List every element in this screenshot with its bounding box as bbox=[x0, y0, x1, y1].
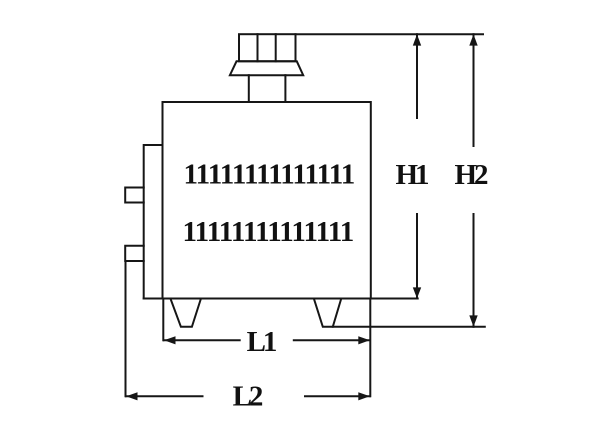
H2 bottom arrowhead bbox=[469, 315, 477, 326]
dimension L2 line left segment bbox=[126, 395, 203, 397]
dimension L2 line right segment bbox=[305, 395, 370, 397]
body bottom extension line bbox=[144, 298, 418, 300]
L1 left extension line bbox=[162, 299, 164, 341]
dimension L1 line right segment bbox=[294, 339, 370, 341]
left mounting plate bbox=[144, 145, 163, 299]
H1 top arrowhead bbox=[413, 34, 421, 45]
neck left edge bbox=[248, 75, 250, 102]
svg-text:11111111111111: 11111111111111 bbox=[183, 216, 354, 248]
svg-text:H1: H1 bbox=[395, 159, 428, 191]
left foot bbox=[171, 299, 201, 327]
top extension line bbox=[296, 33, 484, 35]
neck right edge bbox=[284, 75, 286, 102]
dimension H2 upper segment bbox=[473, 34, 475, 146]
L1 L2 right extension line bbox=[369, 299, 371, 397]
svg-text:11111111111111: 11111111111111 bbox=[184, 158, 355, 190]
L1 left arrowhead bbox=[164, 336, 176, 344]
lower tab bbox=[125, 246, 144, 261]
foot bottom extension line bbox=[333, 326, 485, 328]
upper tab bbox=[125, 188, 144, 203]
bushing trapezoid bbox=[230, 61, 303, 75]
L2 right arrowhead bbox=[358, 392, 370, 400]
H2 top arrowhead bbox=[469, 34, 477, 45]
terminal cap rectangle bbox=[239, 34, 296, 61]
right foot bbox=[314, 299, 341, 327]
dimension H2 lower segment bbox=[473, 214, 475, 327]
dimension H1 lower segment bbox=[416, 214, 418, 299]
L1 right arrowhead bbox=[358, 336, 370, 344]
H1 bottom arrowhead bbox=[413, 287, 421, 298]
terminal cap divider 1 bbox=[257, 34, 259, 61]
svg-text:L2: L2 bbox=[233, 381, 263, 413]
dimension L1 line left segment bbox=[164, 339, 240, 341]
dimension H1 upper segment bbox=[416, 34, 418, 118]
svg-text:L1: L1 bbox=[247, 326, 276, 358]
terminal cap divider 2 bbox=[275, 34, 277, 61]
svg-text:H2: H2 bbox=[454, 159, 488, 191]
L2 left extension line bbox=[125, 261, 127, 396]
L2 left arrowhead bbox=[126, 392, 138, 400]
main body bbox=[163, 102, 371, 299]
